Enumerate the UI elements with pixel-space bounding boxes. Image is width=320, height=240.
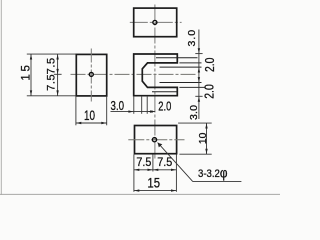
right dim chain arrows xyxy=(198,48,200,53)
dim 7.5/7.5 left: dimension line xyxy=(57,54,59,96)
dim 7.5/7.5 left: middle tick xyxy=(54,73,62,75)
front view slot bottom edge extension xyxy=(179,86,205,88)
svg-text:10: 10 xyxy=(197,133,209,145)
dim 15 left: bottom extension line xyxy=(27,95,76,97)
dim 15 left: arrows xyxy=(30,54,32,59)
leader line 3-3.2phi xyxy=(158,143,193,182)
dim 15 bottom: dimension line xyxy=(134,190,177,192)
bottom scan edge artifact xyxy=(0,193,280,195)
bottom view hole circle xyxy=(152,138,156,142)
svg-text:7.5: 7.5 xyxy=(46,74,58,91)
top view horizontal centerline xyxy=(130,21,182,23)
long vertical centerline through top/front/bottom views xyxy=(154,5,156,161)
horizontal centerline left view to front view xyxy=(71,73,197,75)
bottom view outline xyxy=(135,126,177,154)
dim 10 right of bottom view: dimension line xyxy=(206,123,208,154)
bottom view lower dims: extension lines xyxy=(133,155,135,192)
front view inner line D xyxy=(152,91,177,93)
svg-text:7.5: 7.5 xyxy=(136,155,151,169)
right dim chain ticks xyxy=(195,53,202,55)
dim 3.0 leader line below front view xyxy=(111,111,156,113)
left scan edge artifact xyxy=(0,0,2,195)
right dim chain: vertical dimension line xyxy=(198,30,200,120)
svg-text:7.5: 7.5 xyxy=(157,155,172,169)
svg-text:10: 10 xyxy=(84,107,95,123)
front view C-shaped outline xyxy=(134,54,178,96)
svg-text:2.0: 2.0 xyxy=(158,98,171,113)
svg-text:7.5: 7.5 xyxy=(46,58,58,75)
dim 10 left view: dimension line xyxy=(76,122,107,124)
front view inner line C xyxy=(160,82,202,84)
left view vertical centerline xyxy=(90,49,92,102)
dim 10 left view: extension lines xyxy=(75,97,77,126)
svg-text:3.0: 3.0 xyxy=(186,30,198,47)
svg-text:3.0: 3.0 xyxy=(188,105,200,120)
top view center mark circle xyxy=(153,20,157,24)
front view inner line A xyxy=(156,57,198,59)
dim 10 right of bottom view: extension lines xyxy=(178,122,212,124)
svg-text:3.0: 3.0 xyxy=(111,98,125,113)
dim 7.5/7.5 bottom: dimension line xyxy=(134,169,177,171)
top view outline xyxy=(134,8,177,37)
front view slot top edge extension xyxy=(179,62,201,64)
dim 15 left: top extension line xyxy=(27,53,76,55)
left view outline xyxy=(76,54,106,96)
left view center mark circle xyxy=(89,72,93,76)
dim 10 left view: arrows xyxy=(76,122,81,124)
svg-text:15: 15 xyxy=(147,175,160,191)
bottom view horizontal centerline xyxy=(128,139,184,141)
svg-text:3-3.2φ: 3-3.2φ xyxy=(198,166,228,181)
svg-text:2.0: 2.0 xyxy=(202,58,217,73)
arrows on leader xyxy=(128,110,133,112)
front view inner line B xyxy=(160,66,202,68)
dim 3.0 / 2.0 below front view: extension ticks xyxy=(133,97,135,114)
dim 7.5/7.5 left: arrows xyxy=(56,54,58,59)
svg-text:2.0: 2.0 xyxy=(202,84,217,99)
dim 15 left: dimension line xyxy=(30,54,32,96)
